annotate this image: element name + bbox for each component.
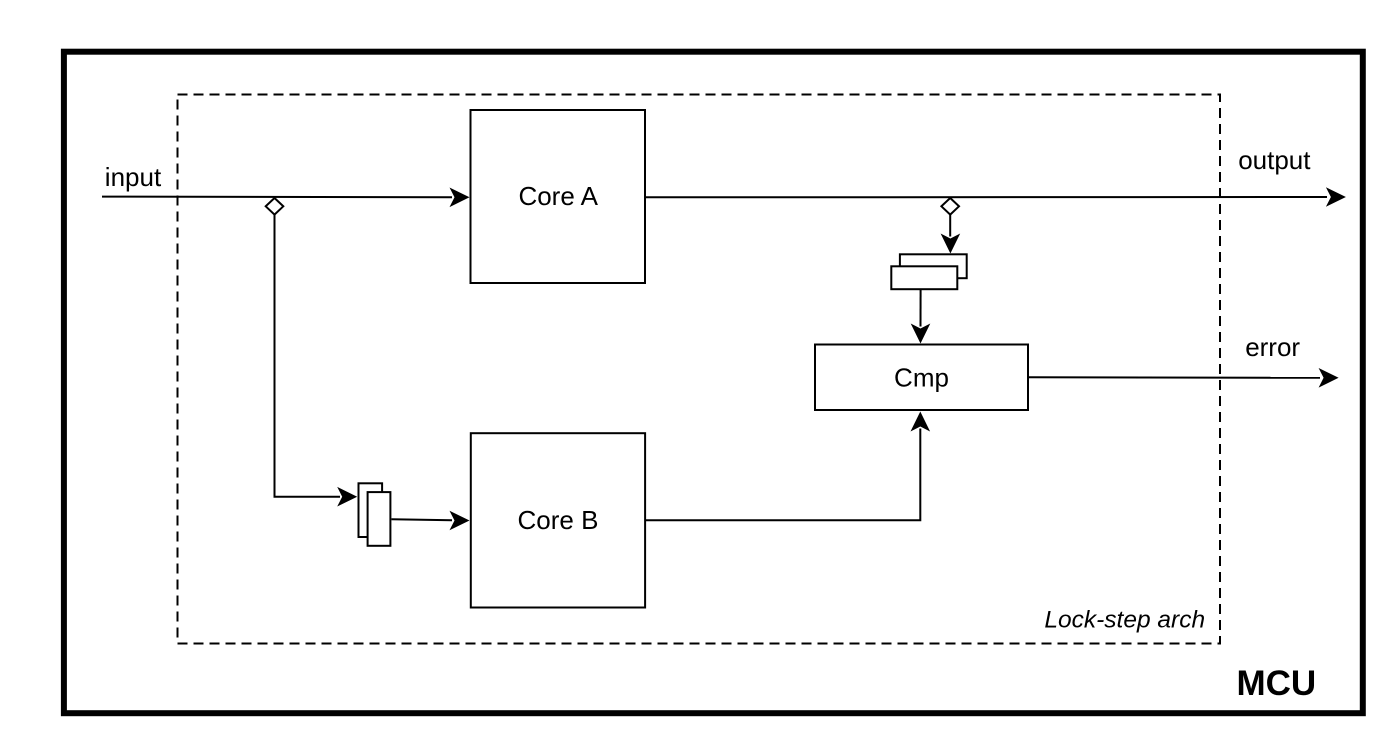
- arrowhead into Core A: [450, 188, 470, 208]
- block Core B: [471, 433, 645, 607]
- dashed lock-step boundary: [178, 95, 1221, 644]
- arrowhead into delay 2: [941, 234, 961, 254]
- svg-text:Lock-step arch: Lock-step arch: [1044, 606, 1205, 633]
- wire input line: [102, 196, 452, 199]
- delay element 2 front card: [891, 266, 957, 289]
- block Core A: [471, 110, 646, 283]
- svg-text:MCU: MCU: [1237, 664, 1317, 703]
- block Cmp: [815, 345, 1028, 411]
- arrowhead into Core B: [450, 511, 470, 531]
- node fork diamond 1: [266, 198, 284, 215]
- arrowhead output: [1326, 187, 1346, 207]
- delay element 1 front card: [368, 492, 391, 546]
- delay element 1 back card: [359, 483, 383, 537]
- arrowhead into Cmp bottom: [911, 412, 931, 432]
- arrowhead error: [1319, 368, 1339, 388]
- wire Cmp to error: [1029, 376, 1320, 379]
- wire delay2 to Cmp: [920, 289, 922, 326]
- svg-text:error: error: [1245, 332, 1300, 362]
- wire diamond1 down then right to delay: [275, 215, 341, 497]
- arrowhead into Cmp top: [911, 324, 931, 344]
- node fork diamond 2: [941, 198, 959, 215]
- svg-text:input: input: [105, 162, 162, 192]
- wire Core A to output: [646, 196, 1328, 198]
- svg-text:output: output: [1238, 145, 1311, 175]
- svg-text:Cmp: Cmp: [894, 363, 949, 393]
- svg-text:Core A: Core A: [518, 181, 598, 211]
- svg-text:Core B: Core B: [518, 505, 599, 535]
- wire Core B to Cmp: [646, 429, 921, 521]
- wire delay1 to Core B: [392, 518, 453, 521]
- arrowhead into delay 1: [337, 487, 357, 507]
- delay element 2 back card: [900, 254, 967, 278]
- wire diamond2 down to delay2: [949, 215, 951, 237]
